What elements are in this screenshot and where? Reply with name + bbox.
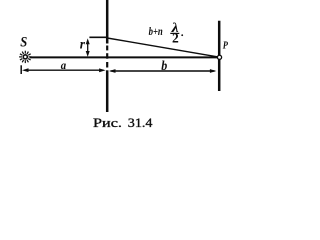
svg-text:P: P: [223, 40, 228, 52]
svg-text:2: 2: [172, 31, 179, 46]
a dimension end tick: [20, 65, 22, 74]
svg-text:Рис.: Рис.: [93, 115, 122, 130]
small dot after formula: [181, 34, 183, 36]
slant ray (b + n lambda/2) from aperture edge to P: [107, 38, 217, 57]
axis wire S to P: [30, 56, 217, 58]
aperture opening (dashed part of screen): [106, 46, 108, 68]
fraction bar of lambda/2: [170, 32, 179, 34]
source S (star symbol): [19, 51, 31, 63]
tick at aperture edge (top of r): [89, 36, 108, 38]
point P (open circle node): [217, 55, 221, 59]
svg-text:31.4: 31.4: [128, 115, 153, 130]
aperture screen (middle vertical line, solid top): [106, 0, 109, 44]
b dimension arrow line: [109, 69, 216, 73]
svg-text:a: a: [61, 58, 66, 72]
svg-text:b+n: b+n: [149, 24, 163, 38]
r dimension arrow (double headed, vertical): [86, 38, 90, 57]
a dimension arrow line: [22, 68, 106, 72]
svg-text:r: r: [80, 38, 86, 53]
observation screen (right vertical line): [218, 21, 221, 91]
svg-text:S: S: [20, 35, 27, 51]
aperture screen (solid bottom): [106, 70, 109, 112]
svg-text:b: b: [161, 58, 167, 73]
